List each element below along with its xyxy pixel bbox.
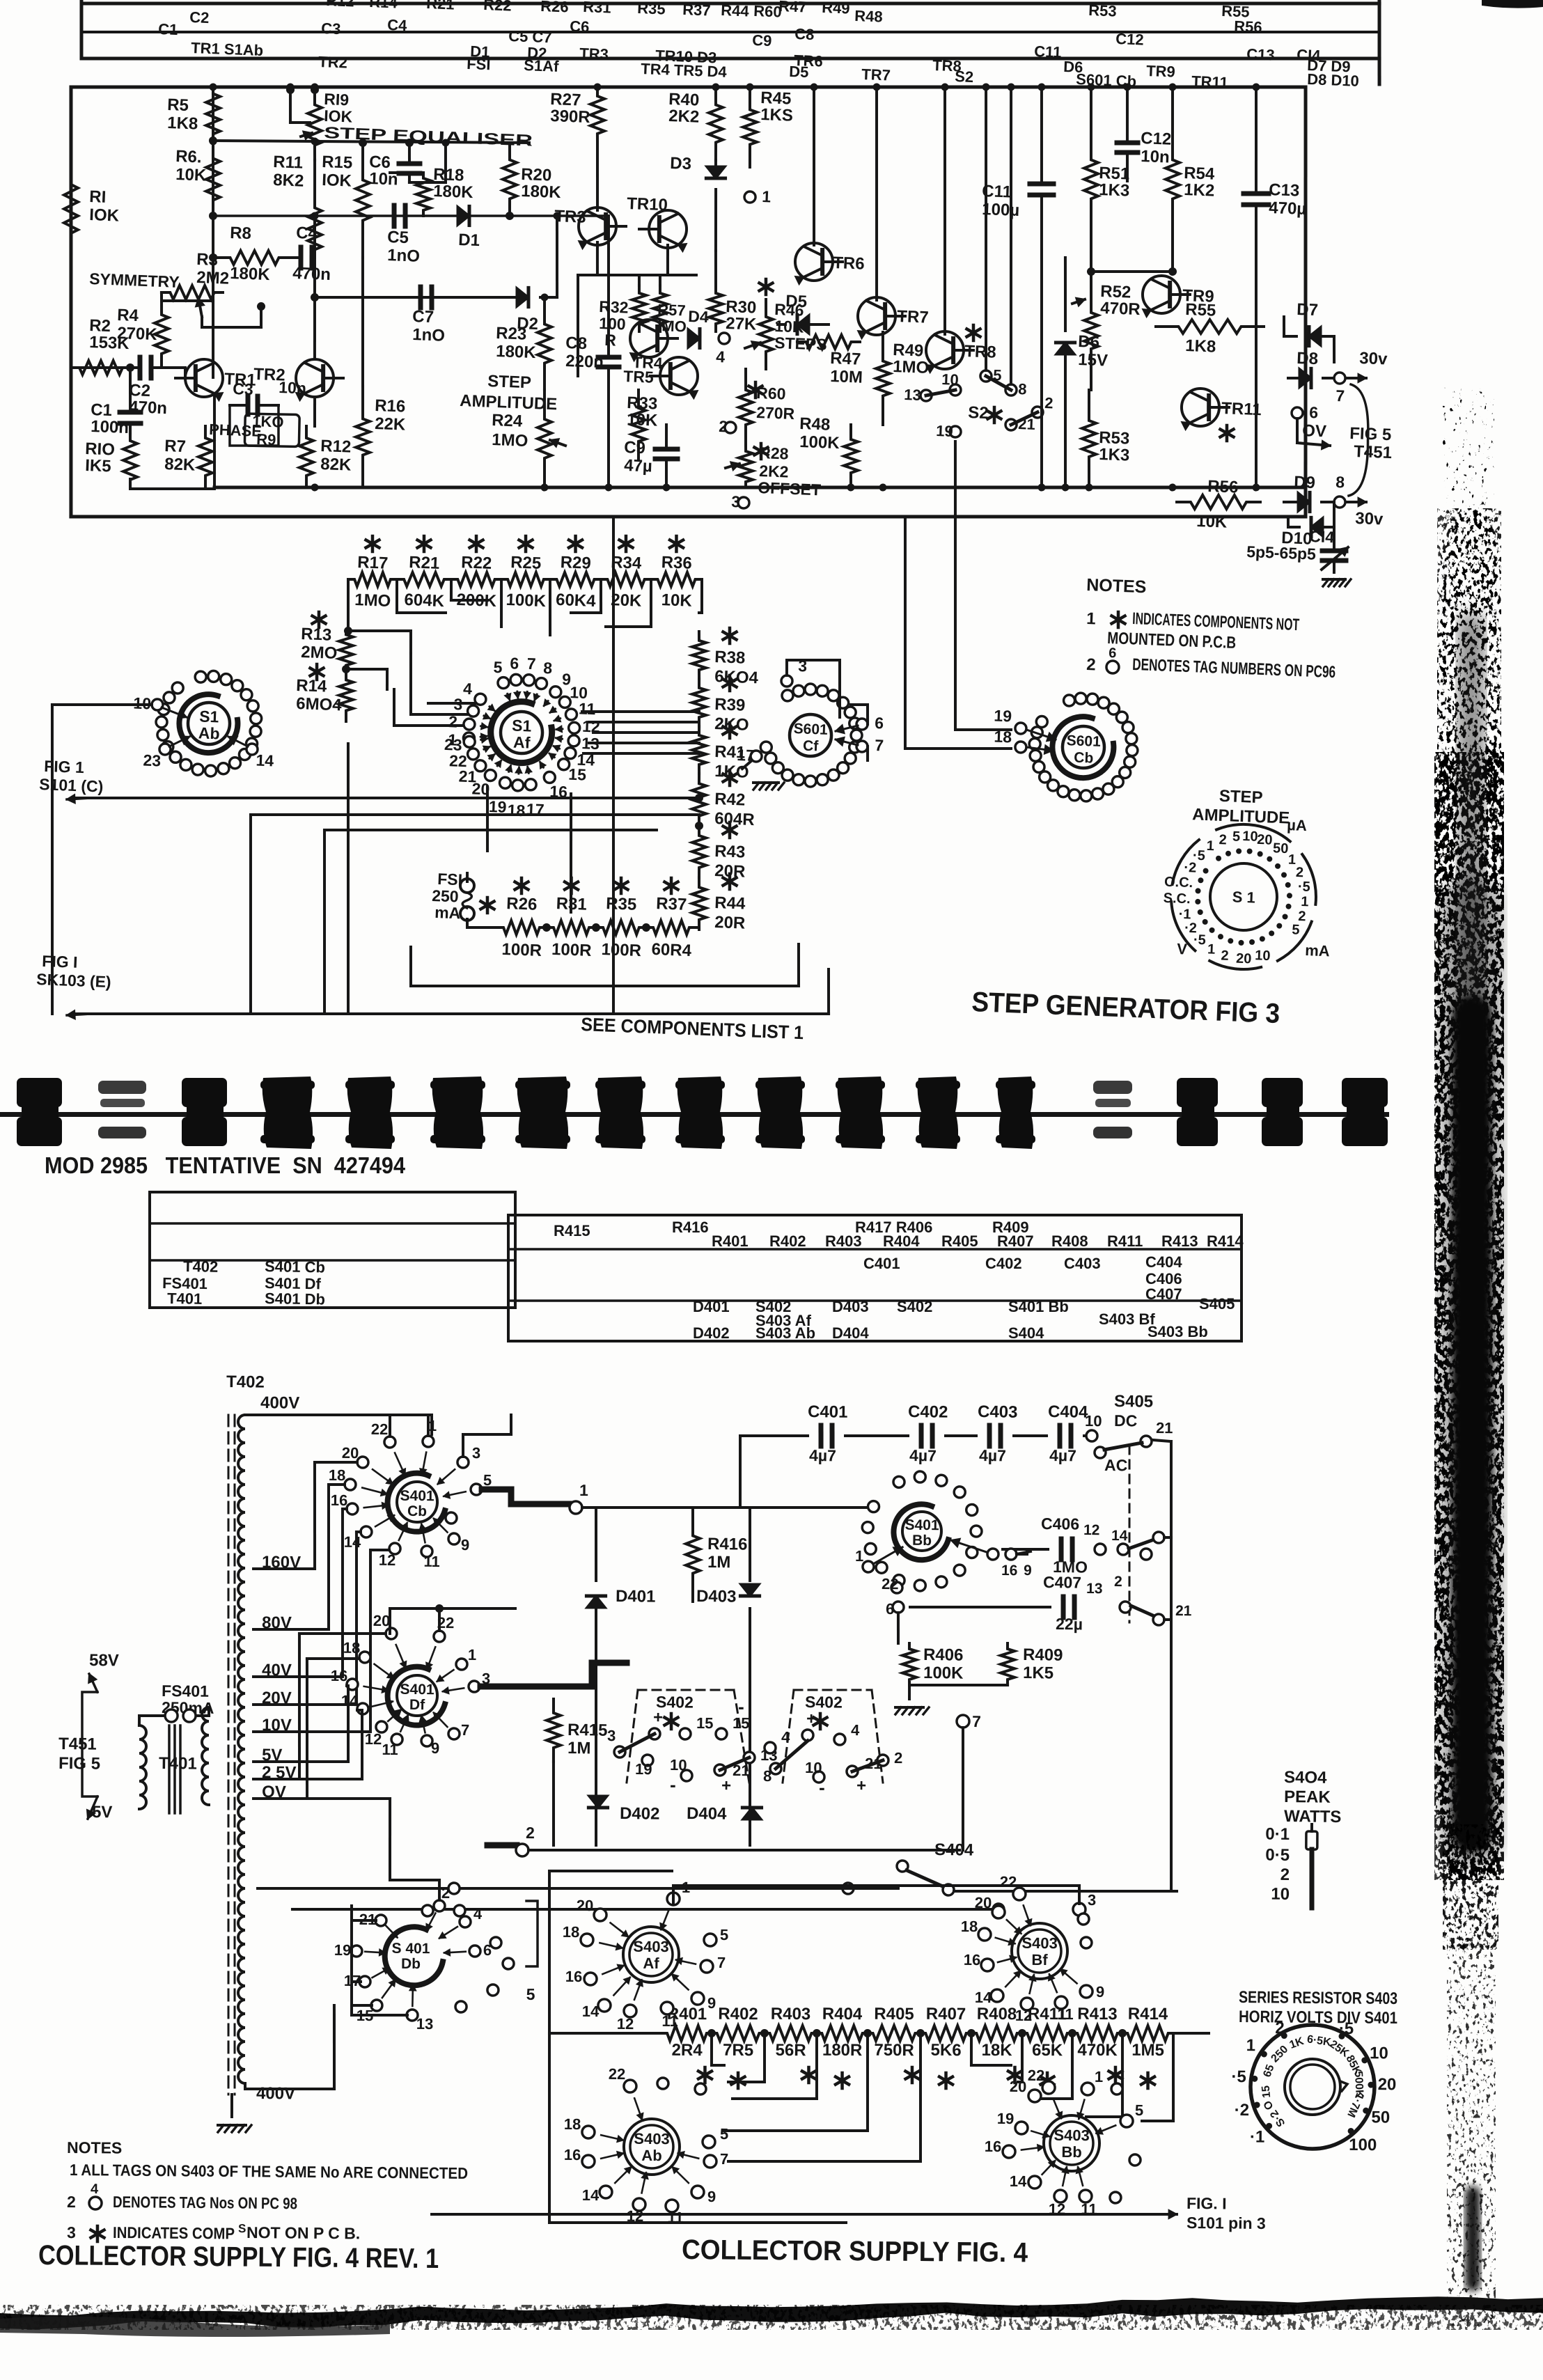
svg-text:R8: R8 xyxy=(230,224,252,243)
wire R15 bottom xyxy=(359,139,367,147)
S403Bf tag 12 xyxy=(1021,1998,1033,2010)
diode D401 xyxy=(595,1508,596,1581)
S403Bb tag 5 xyxy=(1120,2115,1133,2127)
S601Cf ring circle xyxy=(828,769,839,781)
capacitor C13 xyxy=(1244,193,1269,194)
component index table frame xyxy=(80,0,84,58)
S601Cb ring circle xyxy=(1126,733,1137,744)
svg-text:R37: R37 xyxy=(682,1,711,19)
S1Ab tag 10 xyxy=(152,699,163,710)
svg-text:D401: D401 xyxy=(693,1298,730,1315)
resistor R15 xyxy=(354,143,371,258)
transistor TR9 xyxy=(1142,275,1180,313)
S401Bb ring circle xyxy=(914,1471,925,1482)
S401Cb tag 20 xyxy=(357,1457,368,1468)
S403Ab tag 14 xyxy=(600,2186,612,2198)
wire R19 loop xyxy=(290,90,291,123)
wire top rail to S401Cb xyxy=(245,1414,432,1416)
S403Bb tag 12 xyxy=(1054,2190,1067,2202)
pot R57 xyxy=(652,285,668,331)
svg-text:22: 22 xyxy=(882,1575,899,1592)
S403Ab tag 16 xyxy=(582,2155,595,2168)
svg-text:16: 16 xyxy=(331,1667,348,1684)
wire vertical S2 node5 xyxy=(980,87,992,370)
transistor TR6 xyxy=(794,242,833,281)
S1Af tag 2 xyxy=(464,719,475,730)
S601Cb ring circle xyxy=(1127,744,1138,756)
svg-text:18: 18 xyxy=(343,1639,361,1657)
svg-text:604K: 604K xyxy=(404,590,445,611)
S401Bb arm right xyxy=(951,1540,989,1553)
S1Ab ring circle xyxy=(157,729,169,740)
svg-text:5: 5 xyxy=(720,1926,728,1943)
diode D403 xyxy=(749,1508,750,1581)
resistor R55 xyxy=(1156,318,1264,335)
svg-text:100K: 100K xyxy=(799,432,840,453)
svg-text:19: 19 xyxy=(936,422,953,440)
svg-text:4µ7: 4µ7 xyxy=(979,1446,1006,1464)
S1Af tag 4 xyxy=(475,694,486,705)
transistor TR1 xyxy=(185,359,223,397)
svg-text:D3: D3 xyxy=(670,154,692,173)
svg-text:D9: D9 xyxy=(1294,473,1316,492)
S601Cf ring circle xyxy=(805,776,816,787)
resistor R32 xyxy=(632,285,647,331)
resistor R16 xyxy=(360,258,365,386)
svg-text:FSI: FSI xyxy=(437,870,463,888)
svg-text:22µ: 22µ xyxy=(1056,1615,1083,1633)
svg-text:12: 12 xyxy=(1015,2007,1033,2024)
tag 4 xyxy=(719,333,730,344)
wire mesh lower xyxy=(411,978,799,993)
svg-text:R35: R35 xyxy=(637,0,666,18)
resistor R404 xyxy=(817,2026,868,2042)
junction dots bottom rail xyxy=(311,483,318,491)
svg-text:C9: C9 xyxy=(624,438,646,457)
svg-text:R407: R407 xyxy=(926,2005,966,2023)
resistor R51 xyxy=(1082,87,1100,272)
S403Af tag 5 xyxy=(704,1934,716,1946)
svg-text:C4: C4 xyxy=(387,16,408,34)
resistor R47 xyxy=(797,334,860,350)
S601Cb ring circle xyxy=(1122,722,1134,733)
svg-text:R60: R60 xyxy=(753,2,782,21)
wire R2 row xyxy=(71,366,131,368)
svg-text:14: 14 xyxy=(582,2186,600,2204)
svg-text:12: 12 xyxy=(582,717,601,736)
svg-text:50: 50 xyxy=(1371,2108,1390,2127)
arrow 5V xyxy=(88,1796,97,1819)
svg-text:50: 50 xyxy=(1273,840,1289,856)
S401Cb tag 16 xyxy=(347,1503,358,1514)
svg-text:R406: R406 xyxy=(923,1645,964,1665)
S402 left tags xyxy=(614,1746,625,1757)
svg-text:TR7: TR7 xyxy=(897,307,929,327)
svg-text:FIG I: FIG I xyxy=(42,952,78,971)
svg-text:7: 7 xyxy=(717,1954,726,1971)
svg-text:2: 2 xyxy=(1219,832,1227,847)
svg-text:Bf: Bf xyxy=(1031,1951,1048,1968)
S401Cb tag 9 xyxy=(448,1533,460,1544)
svg-text:S403: S403 xyxy=(634,2130,670,2147)
svg-text:R405: R405 xyxy=(941,1232,978,1250)
svg-text:2: 2 xyxy=(1275,2019,1285,2037)
top right corner mark xyxy=(1482,0,1543,8)
S401Bb ring circle xyxy=(893,1575,904,1586)
svg-text:15: 15 xyxy=(568,765,587,784)
svg-text:R36: R36 xyxy=(661,553,692,573)
S401Df tag 20 xyxy=(386,1628,397,1639)
resistor R402 xyxy=(712,2026,765,2042)
binding blob xyxy=(98,1081,146,1094)
tag 7 30V xyxy=(1334,373,1345,384)
svg-text:R42: R42 xyxy=(714,790,746,810)
node mid rail xyxy=(209,212,217,220)
svg-text:SK103 (E): SK103 (E) xyxy=(36,970,111,991)
svg-text:C3: C3 xyxy=(233,379,253,398)
svg-text:R48: R48 xyxy=(854,7,883,26)
svg-text:C403: C403 xyxy=(1064,1255,1101,1272)
svg-text:13: 13 xyxy=(1086,1581,1103,1597)
wire TR7 col xyxy=(872,87,881,300)
S1Af tag 20 xyxy=(485,769,496,781)
binding blob xyxy=(597,1077,643,1149)
svg-text:8: 8 xyxy=(1336,473,1345,491)
S401Cb plain tag xyxy=(446,1512,457,1524)
svg-text:R407: R407 xyxy=(997,1232,1034,1250)
rotary switch S401 Bb plain xyxy=(893,1504,948,1560)
switch S2 xyxy=(921,390,932,401)
S401Df tag 16 xyxy=(347,1679,358,1690)
star R29 xyxy=(574,536,577,551)
S601Cb ring circle xyxy=(1098,697,1109,708)
S403Bf tag 18 xyxy=(978,1928,991,1941)
svg-text:8: 8 xyxy=(1018,380,1027,398)
S403Bb tag 20 xyxy=(1028,2090,1041,2102)
svg-text:5: 5 xyxy=(1232,829,1241,844)
svg-text:R53: R53 xyxy=(1088,1,1117,20)
wire D7 feed xyxy=(1283,317,1284,336)
star R403 xyxy=(807,2067,810,2083)
svg-text:IK5: IK5 xyxy=(85,456,111,476)
rotary switch S403 Bf xyxy=(1012,1923,1067,1979)
star R41 xyxy=(728,723,731,738)
S601Cb ring circle xyxy=(1069,790,1080,801)
svg-text:S403: S403 xyxy=(1021,1934,1058,1952)
S601Cb tag 18 xyxy=(1015,742,1026,753)
S1Ab ring circle xyxy=(162,741,173,752)
svg-text:750R: 750R xyxy=(874,2041,914,2060)
S601Cb ring circle xyxy=(1103,783,1114,794)
wire S404 right xyxy=(954,1890,1177,1893)
svg-text:30v: 30v xyxy=(1355,509,1384,529)
resistor R415 xyxy=(547,1699,561,1762)
svg-text:10K: 10K xyxy=(661,590,693,611)
long wire bottom xyxy=(75,999,829,1028)
pot R46 STEPS xyxy=(758,299,774,369)
binding blob xyxy=(758,1077,803,1149)
svg-text:S401: S401 xyxy=(400,1488,434,1505)
S601Cb ring circle xyxy=(1030,750,1041,761)
bracket 5 xyxy=(526,1901,538,1966)
svg-text:2: 2 xyxy=(1296,865,1304,880)
svg-text:R6.: R6. xyxy=(175,147,202,166)
tag 8 30V xyxy=(1334,496,1345,508)
node R8 left xyxy=(209,253,217,262)
S1Af tag 6 xyxy=(510,674,522,685)
rotary switch S601 Cb xyxy=(1062,726,1104,768)
diode D9 xyxy=(1298,492,1310,512)
wire R23 col xyxy=(543,296,546,299)
S403Bb tag 1 xyxy=(1081,2083,1094,2095)
S1Af tag 16 xyxy=(544,772,555,783)
S401Db tag 19 xyxy=(351,1946,362,1957)
svg-text:D402: D402 xyxy=(693,1324,730,1342)
svg-text:12: 12 xyxy=(365,1730,382,1748)
T401 core xyxy=(169,1725,170,1813)
svg-text:T401: T401 xyxy=(159,1754,197,1774)
svg-text:C8: C8 xyxy=(565,334,588,353)
S401Bb ring circle xyxy=(971,1526,982,1537)
star R17 xyxy=(370,536,374,551)
star R39 xyxy=(728,675,731,691)
svg-text:15: 15 xyxy=(1260,2085,1273,2099)
svg-text:FSI: FSI xyxy=(467,55,491,73)
svg-text:10n: 10n xyxy=(1141,147,1170,167)
photocopy smudge zone upper medium xyxy=(1437,508,1501,801)
svg-text:IOK: IOK xyxy=(322,171,352,191)
svg-text:R402: R402 xyxy=(718,2005,758,2023)
svg-text:R21: R21 xyxy=(426,0,455,13)
svg-text:47µ: 47µ xyxy=(624,456,653,476)
resistor R30 xyxy=(708,285,723,331)
wire TR1 emitter xyxy=(212,394,216,487)
S1Ab ring circle xyxy=(195,671,206,682)
S401Bb ring circle xyxy=(954,1487,965,1498)
svg-text:S1Af: S1Af xyxy=(524,56,560,75)
rotary switch S401 Df xyxy=(387,1666,445,1725)
svg-text:Ab: Ab xyxy=(641,2147,662,2164)
svg-text:58V: 58V xyxy=(89,1651,119,1670)
long wire S2 to S601Cb 2 xyxy=(901,517,910,749)
resistor R27 xyxy=(590,87,605,143)
svg-text:100n: 100n xyxy=(91,417,130,437)
svg-text:R60: R60 xyxy=(756,384,786,403)
svg-text:TR2: TR2 xyxy=(253,365,285,385)
star R34 xyxy=(624,536,627,551)
S401Db tag 13 xyxy=(407,2010,418,2021)
svg-text:2: 2 xyxy=(1280,1865,1290,1884)
svg-text:15: 15 xyxy=(696,1714,714,1732)
S1Af tag 19 xyxy=(499,777,510,788)
S403Bf plain tags xyxy=(1078,1913,1089,1925)
capacitor C2 xyxy=(139,357,140,378)
capacitor C12 fig3 xyxy=(1117,142,1138,143)
svg-text:2: 2 xyxy=(441,1884,450,1902)
svg-text:4µ7: 4µ7 xyxy=(809,1446,836,1464)
T402 ground xyxy=(230,2095,233,2117)
wire TR1 base xyxy=(171,366,185,370)
svg-text:1M5: 1M5 xyxy=(1131,2041,1164,2060)
svg-text:19: 19 xyxy=(994,707,1012,726)
svg-text:S403: S403 xyxy=(1054,2127,1090,2144)
svg-text:NOT ON P C B.: NOT ON P C B. xyxy=(246,2223,360,2242)
diode D3 xyxy=(706,166,726,178)
svg-text:6: 6 xyxy=(510,654,519,672)
S1Af tag 18 xyxy=(512,780,524,791)
svg-text:2: 2 xyxy=(526,1824,535,1842)
svg-text:16: 16 xyxy=(565,1968,583,1985)
svg-text:T401: T401 xyxy=(167,1290,203,1308)
pot R24 STEP AMPLITUDE xyxy=(536,390,552,487)
wire box around FS1 area xyxy=(324,824,657,836)
svg-text:22: 22 xyxy=(449,751,468,770)
svg-text:14: 14 xyxy=(1010,2172,1027,2190)
svg-text:16: 16 xyxy=(985,2138,1002,2155)
svg-text:FIG 5: FIG 5 xyxy=(58,1754,100,1774)
svg-text:Cb: Cb xyxy=(407,1503,427,1519)
resistor R54 xyxy=(1164,87,1182,272)
svg-text:9: 9 xyxy=(461,1536,470,1553)
svg-text:8: 8 xyxy=(543,659,553,677)
photocopy smudge zone lower mid xyxy=(1443,1824,1498,1950)
svg-text:C402: C402 xyxy=(908,1402,948,1422)
star R26 xyxy=(519,878,523,893)
svg-text:1: 1 xyxy=(762,187,771,205)
svg-text:13: 13 xyxy=(416,2015,434,2033)
svg-text:1nO: 1nO xyxy=(412,325,446,345)
svg-text:R22: R22 xyxy=(483,0,512,15)
svg-text:1K8: 1K8 xyxy=(167,113,198,134)
svg-text:C1: C1 xyxy=(158,20,178,38)
svg-text:1M: 1M xyxy=(707,1553,731,1572)
svg-text:18: 18 xyxy=(994,728,1012,746)
S1Ab ring circle xyxy=(241,689,252,700)
svg-text:10: 10 xyxy=(133,694,152,712)
bottom photocopy band xyxy=(0,2296,1543,2329)
svg-text:TR10: TR10 xyxy=(627,194,668,214)
wire TR3 links xyxy=(597,242,598,275)
svg-text:23: 23 xyxy=(444,735,463,754)
wires into S401Db xyxy=(351,1906,352,2015)
resistor R42 xyxy=(691,774,707,826)
capacitor C6 xyxy=(399,163,420,164)
node TR2-C4 row xyxy=(311,293,319,302)
wires R32/R57/R30 cluster xyxy=(576,275,579,376)
svg-text:C11: C11 xyxy=(1034,42,1062,61)
tag 3 xyxy=(738,497,749,508)
svg-text:180K: 180K xyxy=(230,264,271,284)
svg-text:22: 22 xyxy=(1000,1873,1017,1890)
svg-text:2: 2 xyxy=(1044,394,1054,412)
tag 2 xyxy=(725,422,736,433)
svg-text:20R: 20R xyxy=(714,913,746,933)
svg-text:20: 20 xyxy=(1257,832,1273,848)
S601Cb ring circle xyxy=(1036,716,1047,727)
S601Cb ring circle xyxy=(1087,694,1098,705)
svg-text:180K: 180K xyxy=(521,182,562,202)
transformer T401 right winding xyxy=(201,1707,210,1805)
svg-text:AC: AC xyxy=(1104,1456,1128,1474)
svg-text:S405: S405 xyxy=(1114,1392,1153,1411)
transformer T402 winding xyxy=(234,1415,249,2083)
S601Cb ring circle xyxy=(1081,790,1092,801)
dial S1 STEP AMPLITUDE xyxy=(1209,863,1278,931)
svg-text:23: 23 xyxy=(143,751,162,769)
long wire left 2 xyxy=(251,806,699,824)
svg-text:R37: R37 xyxy=(656,894,687,914)
S401Df tag 22 xyxy=(434,1631,445,1642)
svg-text:C401: C401 xyxy=(863,1255,900,1272)
svg-text:100: 100 xyxy=(599,314,626,333)
svg-text:10: 10 xyxy=(1271,1885,1290,1904)
wires S1Af left tags to R13 hooks xyxy=(394,724,468,727)
star R36 xyxy=(675,536,678,551)
svg-text:1K8: 1K8 xyxy=(1185,336,1216,357)
photocopy smudge lower streak xyxy=(1465,2186,1480,2291)
svg-text:S405: S405 xyxy=(1199,1295,1235,1313)
svg-text:5: 5 xyxy=(526,1985,535,2003)
binding blob xyxy=(677,1077,723,1149)
resistor R416 xyxy=(685,1508,700,1602)
svg-text:20: 20 xyxy=(1378,2075,1397,2094)
junction dots top rail xyxy=(209,83,217,91)
switch arm C406 xyxy=(1129,1539,1156,1549)
svg-text:R43: R43 xyxy=(714,842,746,862)
svg-text:D404: D404 xyxy=(687,1804,727,1824)
S401Bb ring circle xyxy=(914,1580,925,1591)
svg-text:R401: R401 xyxy=(712,1232,749,1250)
svg-text:R14: R14 xyxy=(296,676,328,696)
resistor R405 xyxy=(868,2026,921,2042)
S403Af tag 12 xyxy=(624,2005,636,2017)
S601Cf ring circle xyxy=(845,753,856,764)
binding blob xyxy=(918,1077,958,1149)
svg-text:5V: 5V xyxy=(92,1803,113,1822)
S601Cf ring circle xyxy=(837,762,848,774)
rotary switch S401 Db xyxy=(384,1927,443,1985)
svg-text:S402: S402 xyxy=(897,1298,932,1315)
resistor R408 xyxy=(971,2026,1022,2042)
switch S402 right box xyxy=(794,1689,872,1690)
S403Bb tag 19 xyxy=(1015,2122,1028,2134)
svg-text:D402: D402 xyxy=(620,1804,660,1824)
svg-text:R56: R56 xyxy=(1234,17,1262,36)
wire column R5 xyxy=(207,87,219,377)
S601Cf ring circle xyxy=(845,707,856,718)
svg-text:·1: ·1 xyxy=(1250,2127,1265,2146)
S1Af tag 15 xyxy=(558,759,570,770)
S403Ab tag 9 xyxy=(691,2186,704,2198)
svg-text:7: 7 xyxy=(461,1721,470,1739)
mid signal rail xyxy=(213,208,609,224)
svg-text:Ab: Ab xyxy=(198,723,220,742)
svg-text:TR3: TR3 xyxy=(579,45,609,63)
wire 400V staircase xyxy=(334,2005,334,2089)
S601Cb ring circle xyxy=(1039,772,1050,783)
svg-text:R413: R413 xyxy=(1077,2005,1118,2023)
svg-text:R31: R31 xyxy=(583,0,611,17)
svg-text:S1: S1 xyxy=(512,717,532,735)
wire node1 rail xyxy=(582,1505,876,1509)
pot R19 STEP EQUALISER xyxy=(307,90,323,160)
capacitor row C401-C404 xyxy=(740,1435,808,1436)
tag node 2 xyxy=(516,1844,528,1856)
S1Af tag 23 xyxy=(464,736,475,747)
svg-text:R414: R414 xyxy=(1207,1232,1244,1250)
svg-text:9: 9 xyxy=(431,1739,440,1757)
svg-text:D404: D404 xyxy=(832,1324,869,1342)
